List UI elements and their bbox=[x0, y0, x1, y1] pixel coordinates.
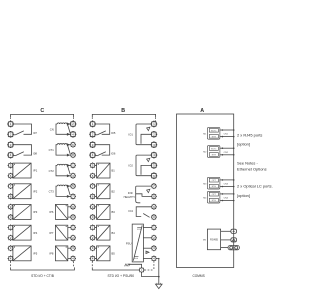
svg-text:Ethernet Options: Ethernet Options bbox=[237, 167, 267, 172]
svg-text:COMMS: COMMS bbox=[192, 274, 204, 278]
svg-text:CN3: CN3 bbox=[224, 184, 229, 186]
terminal block B top bracket bbox=[92, 114, 155, 117]
svg-text:B: B bbox=[121, 108, 125, 114]
svg-text:IP1: IP1 bbox=[33, 169, 38, 173]
current transformer input CN bbox=[71, 122, 76, 127]
svg-text:IP7: IP7 bbox=[49, 231, 54, 235]
svg-text:[option]: [option] bbox=[237, 193, 250, 198]
opto input B5 of block B bbox=[90, 245, 96, 251]
svg-text:IP8: IP8 bbox=[49, 252, 54, 256]
svg-text:STD I/O + CT/B: STD I/O + CT/B bbox=[31, 274, 54, 278]
opto input IP4 of block C bbox=[8, 225, 14, 231]
terminal block C bottom bracket bbox=[11, 267, 75, 270]
ethernet port module M2 (ELEC ETH) bbox=[207, 146, 220, 158]
svg-text:CN: CN bbox=[50, 127, 54, 131]
relay output contact IO5 with terminals 1,2 bbox=[90, 122, 95, 127]
svg-text:IO4: IO4 bbox=[129, 209, 134, 213]
svg-text:STD I/O + PSU/50: STD I/O + PSU/50 bbox=[107, 274, 134, 278]
svg-text:IP5: IP5 bbox=[33, 252, 38, 256]
opto input IP6 of block C bbox=[70, 204, 76, 210]
opto input B4 of block B bbox=[90, 225, 96, 231]
opto input B1 of block B bbox=[90, 162, 96, 168]
relay output contact I07 with terminals 1,2 bbox=[8, 122, 13, 127]
wire dashed riser C bottom-left bbox=[10, 261, 12, 267]
opto input IP5 of block C bbox=[8, 245, 14, 251]
svg-text:2 x RJ45 ports: 2 x RJ45 ports bbox=[237, 133, 262, 138]
wire dashed link case earth to PSU earth terminal bbox=[144, 269, 154, 271]
svg-text:ETH: ETH bbox=[212, 200, 217, 202]
opto input IP1 of block C bbox=[8, 162, 14, 168]
terminal block C top bracket bbox=[11, 114, 74, 117]
svg-text:CN4: CN4 bbox=[224, 198, 229, 200]
wire dashed riser C bottom-right bbox=[73, 261, 75, 267]
svg-text:HEALTHY: HEALTHY bbox=[124, 196, 136, 199]
svg-text:ETH: ETH bbox=[212, 136, 217, 138]
svg-text:IP2: IP2 bbox=[33, 189, 38, 193]
svg-text:IO3/: IO3/ bbox=[128, 191, 133, 195]
svg-text:RS485: RS485 bbox=[210, 238, 218, 242]
wire case earth to protective earth bbox=[142, 273, 159, 277]
current transformer input CT2 bbox=[70, 162, 76, 168]
wire dashed riser B top-left bbox=[91, 117, 93, 121]
opto input IP3 of block C bbox=[8, 204, 14, 210]
svg-text:B1: B1 bbox=[112, 169, 116, 173]
svg-text:B3: B3 bbox=[112, 210, 116, 214]
opto input IP7 of block C bbox=[70, 225, 76, 231]
svg-text:IO2: IO2 bbox=[129, 164, 134, 168]
serial port module RS485 bbox=[207, 229, 220, 250]
PSU terminals 11,12,13,14 bbox=[151, 225, 157, 231]
svg-text:2 x Optical LC ports.: 2 x Optical LC ports. bbox=[237, 183, 273, 188]
svg-text:A: A bbox=[200, 108, 204, 114]
ethernet port module M4 (OPT ETH) bbox=[207, 191, 220, 203]
wire PSU terminal 14 to protective earth bbox=[157, 259, 159, 285]
ethernet port module M3 (OPT ETH) bbox=[207, 177, 220, 189]
opto input IP2 of block C bbox=[8, 183, 14, 189]
svg-text:See Notes -: See Notes - bbox=[237, 160, 258, 165]
svg-text:B4: B4 bbox=[112, 231, 116, 235]
ethernet port module M1 (ELEC ETH) bbox=[207, 127, 220, 139]
current transformer input CT1 bbox=[70, 142, 76, 148]
svg-text:ETH: ETH bbox=[212, 186, 217, 188]
current transformer input CT3 bbox=[70, 183, 76, 189]
svg-text:CT2: CT2 bbox=[49, 169, 55, 173]
PSU earth arrow mark bbox=[146, 251, 149, 253]
wire dashed riser B top-right bbox=[155, 117, 157, 121]
case earth stud terminal bbox=[139, 267, 145, 273]
svg-text:IP3: IP3 bbox=[33, 210, 38, 214]
svg-text:IO1: IO1 bbox=[129, 132, 134, 136]
wire dashed riser C top-right bbox=[73, 117, 75, 121]
junction dot at terminal 14 bbox=[158, 258, 159, 259]
svg-text:ELEC: ELEC bbox=[211, 149, 217, 151]
svg-text:I07: I07 bbox=[33, 131, 37, 135]
relay output contact IO6 with terminals 3,4 bbox=[90, 142, 95, 147]
opto input B2 of block B bbox=[90, 183, 96, 189]
output contact IO4 with terminals 9,10 bbox=[151, 204, 157, 210]
RS485 terminal + bbox=[231, 229, 237, 233]
svg-text:CT3: CT3 bbox=[49, 190, 55, 194]
svg-text:ELEC: ELEC bbox=[211, 130, 217, 132]
svg-text:I08: I08 bbox=[33, 152, 37, 156]
opto input B3 of block B bbox=[90, 204, 96, 210]
svg-text:B2: B2 bbox=[112, 189, 116, 193]
chassis earth symbol bbox=[129, 264, 142, 267]
svg-text:CN1: CN1 bbox=[224, 134, 229, 136]
svg-text:IP6: IP6 bbox=[49, 210, 54, 214]
wire dashed riser B bottom-left bbox=[91, 261, 93, 267]
svg-text:IP4: IP4 bbox=[33, 231, 38, 235]
svg-text:B5: B5 bbox=[112, 252, 116, 256]
svg-text:CN2: CN2 bbox=[224, 152, 229, 154]
changeover contact IO1 with terminals 1,2,3 bbox=[152, 122, 157, 127]
svg-text:IO6: IO6 bbox=[111, 152, 116, 156]
changeover contact IO2 with terminals 4,5,6 bbox=[152, 153, 157, 158]
RS485 screen terminal pair bbox=[228, 245, 239, 249]
RS485 terminal - bbox=[231, 238, 237, 242]
svg-text:IO5: IO5 bbox=[111, 131, 116, 135]
wire dashed riser C top-left bbox=[10, 117, 12, 121]
svg-text:PSU: PSU bbox=[126, 241, 132, 245]
svg-text:CT1: CT1 bbox=[49, 148, 55, 152]
relay output contact I08 with terminals 3,4 bbox=[8, 142, 13, 147]
power supply unit PSU bbox=[132, 224, 143, 262]
opto input IP8 of block C bbox=[70, 245, 76, 251]
svg-text:[option]: [option] bbox=[237, 142, 250, 147]
svg-text:C: C bbox=[40, 108, 44, 114]
junction dot bbox=[158, 276, 160, 278]
protective earth ground symbol bbox=[156, 284, 163, 288]
terminal block B bottom bracket bbox=[92, 267, 139, 270]
svg-text:ETH: ETH bbox=[212, 155, 217, 157]
watchdog contact IO3 HEALTHY with terminals 7,8 bbox=[151, 183, 157, 189]
